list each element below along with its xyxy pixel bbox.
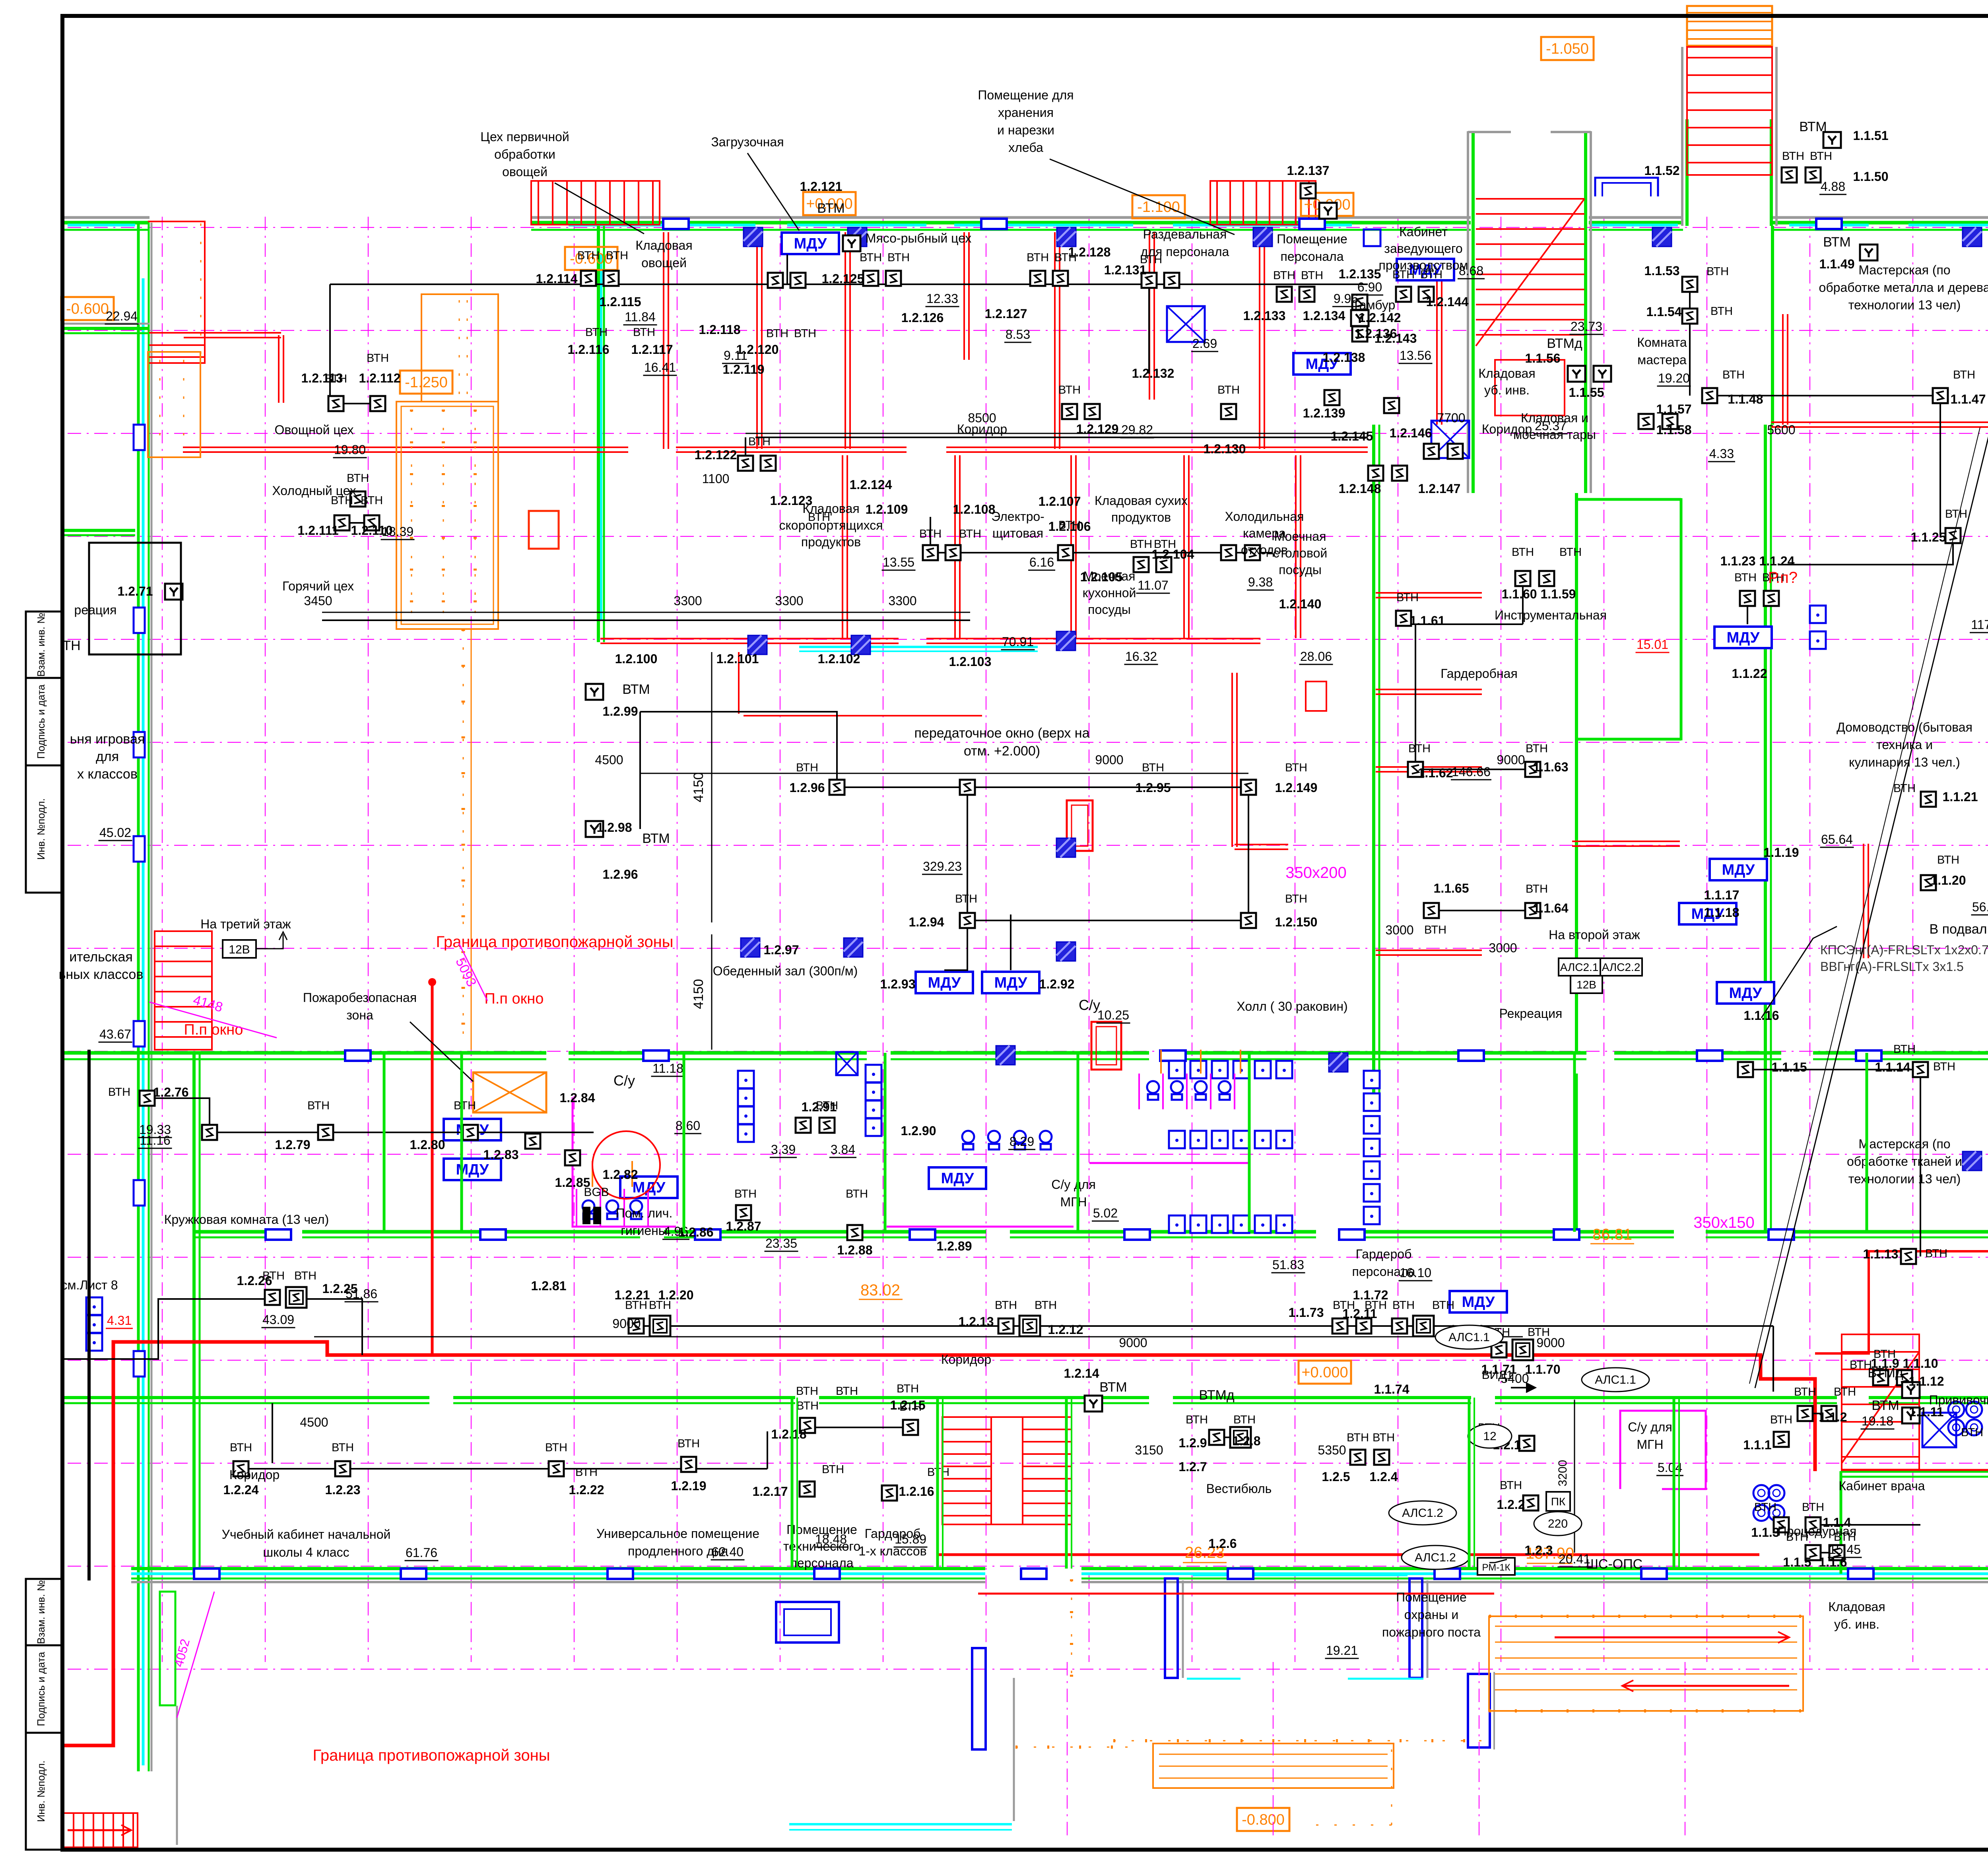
svg-text:19.18: 19.18 (1862, 1414, 1893, 1428)
red stair hatch top-left (531, 181, 660, 225)
svg-text:Домоводство (бытовая: Домоводство (бытовая (1837, 720, 1972, 734)
svg-text:13.56: 13.56 (1400, 348, 1431, 363)
svg-text:Тамбур: Тамбур (1352, 298, 1396, 312)
svg-text:86.81: 86.81 (1592, 1226, 1632, 1243)
svg-text:ВТН: ВТН (1347, 1431, 1369, 1444)
svg-text:ВТН: ВТН (1802, 1501, 1824, 1514)
svg-text:1.2.81: 1.2.81 (531, 1279, 567, 1293)
svg-text:1.2.88: 1.2.88 (837, 1243, 873, 1257)
svg-text:1.2.13: 1.2.13 (959, 1314, 994, 1329)
svg-text:Взам. инв. №: Взам. инв. № (35, 613, 47, 677)
svg-text:ВТМ: ВТМ (1823, 235, 1851, 250)
svg-text:Загрузочная: Загрузочная (711, 135, 784, 149)
svg-text:220: 220 (1548, 1517, 1568, 1530)
svg-text:4500: 4500 (300, 1415, 328, 1429)
svg-text:1.1.63: 1.1.63 (1533, 760, 1569, 774)
svg-text:АЛС1.1: АЛС1.1 (1448, 1331, 1490, 1344)
svg-text:АЛС1.2: АЛС1.2 (1402, 1507, 1443, 1520)
svg-text:ВТН: ВТН (633, 326, 655, 339)
porch hatch bottom right-center (1489, 1616, 1803, 1711)
svg-text:ВТН: ВТН (1706, 265, 1729, 278)
svg-text:На второй этаж: На второй этаж (1549, 928, 1640, 942)
svg-text:столовой: столовой (1273, 546, 1328, 560)
svg-text:29.82: 29.82 (1121, 423, 1153, 437)
svg-text:ВТН: ВТН (1333, 1299, 1355, 1312)
svg-text:ВТН: ВТН (816, 1099, 838, 1112)
svg-text:ВТН: ВТН (307, 1099, 330, 1112)
svg-text:350х200: 350х200 (1285, 864, 1346, 881)
svg-text:117.57: 117.57 (1971, 617, 1988, 632)
orange duct structure left (396, 402, 498, 629)
svg-text:1.2.129: 1.2.129 (1076, 422, 1119, 436)
svg-text:1.1.20: 1.1.20 (1931, 873, 1966, 887)
svg-text:Кабинет врача: Кабинет врача (1839, 1479, 1925, 1493)
svg-text:Комната: Комната (1637, 335, 1687, 349)
svg-text:технологии 13 чел): технологии 13 чел) (1848, 298, 1961, 312)
svg-text:ВТН: ВТН (1373, 1431, 1395, 1444)
svg-text:ВТН: ВТН (1186, 1413, 1208, 1426)
svg-text:1.2.87: 1.2.87 (726, 1219, 761, 1233)
svg-text:ВТН: ВТН (1140, 253, 1162, 266)
svg-text:Холодильная: Холодильная (1225, 509, 1304, 524)
fire loop red corridor line (62, 1342, 1815, 1745)
svg-text:школы 4 класс: школы 4 класс (263, 1545, 349, 1559)
exterior walls: top band (gray/green/cyan) (62, 216, 149, 219)
red stair hatch top-mid (1210, 181, 1316, 225)
orange taps (1160, 1050, 1162, 1074)
svg-text:мастера: мастера (1637, 353, 1687, 367)
svg-text:1.2.102: 1.2.102 (818, 652, 860, 666)
svg-text:ВВГнг(А)-FRLSLTх 3х1.5: ВВГнг(А)-FRLSLTх 3х1.5 (1820, 959, 1964, 974)
svg-text:1.2.98: 1.2.98 (597, 820, 632, 835)
svg-text:ьных классов: ьных классов (59, 967, 144, 982)
svg-text:Инв. №подл.: Инв. №подл. (35, 1761, 47, 1822)
svg-text:9000: 9000 (1536, 1336, 1565, 1350)
svg-text:1.2.18: 1.2.18 (771, 1427, 807, 1441)
left porch orange (1153, 1744, 1394, 1788)
svg-text:19.21: 19.21 (1326, 1643, 1358, 1658)
stair tower1 red flight (1476, 198, 1584, 200)
extended magenta verticals bottom (1067, 1662, 1068, 1841)
svg-text:Коридор: Коридор (941, 1352, 991, 1367)
svg-text:С/у: С/у (1079, 997, 1100, 1013)
svg-text:1.1.3: 1.1.3 (1751, 1525, 1779, 1540)
svg-text:хлеба: хлеба (1008, 140, 1043, 155)
svg-text:4150: 4150 (691, 772, 706, 802)
svg-text:ВТН: ВТН (1782, 150, 1804, 163)
svg-text:ительская: ительская (69, 949, 132, 965)
svg-text:ВТН: ВТН (577, 249, 600, 262)
interior green verticals mid sanitary blocks (383, 1053, 386, 1232)
svg-text:1.2.122: 1.2.122 (695, 448, 737, 462)
privivochnaya circles (1948, 1402, 1964, 1417)
svg-text:уб. инв.: уб. инв. (1484, 383, 1530, 397)
svg-text:1.2.118: 1.2.118 (699, 322, 741, 337)
NE block wall x4458 (1771, 226, 1774, 425)
MDU boxes (782, 233, 839, 254)
svg-text:Кладовая: Кладовая (635, 238, 692, 252)
svg-text:1.1.53: 1.1.53 (1644, 264, 1680, 278)
svg-text:1.2.19: 1.2.19 (671, 1479, 707, 1493)
svg-text:4150: 4150 (691, 979, 706, 1009)
svg-text:1.2.5: 1.2.5 (1322, 1470, 1350, 1484)
svg-text:1.1.21: 1.1.21 (1943, 790, 1978, 804)
svg-text:1.1.56: 1.1.56 (1525, 351, 1561, 365)
svg-text:4.88: 4.88 (1821, 179, 1845, 194)
svg-text:ВТН: ВТН (794, 327, 816, 340)
svg-text:1.2.111: 1.2.111 (297, 523, 338, 538)
svg-text:11.07: 11.07 (1138, 578, 1169, 592)
svg-text:и нарезки: и нарезки (997, 123, 1054, 137)
svg-text:1.1.57: 1.1.57 (1656, 402, 1692, 416)
svg-text:1.2.112: 1.2.112 (359, 371, 401, 385)
svg-text:ВТН: ВТН (1217, 384, 1240, 396)
svg-text:П.п окно: П.п окно (184, 1021, 243, 1038)
svg-text:1.1.74: 1.1.74 (1374, 1382, 1409, 1396)
svg-text:ВТМ: ВТМ (1872, 1398, 1899, 1413)
stair tower2 orange+red (1687, 6, 1772, 46)
left exterior wall (137, 223, 140, 1771)
axis grid (162, 217, 163, 1662)
svg-text:ВТН: ВТН (1392, 1299, 1415, 1312)
svg-text:1.1.47: 1.1.47 (1951, 392, 1986, 406)
hall sink rows (1169, 1061, 1185, 1078)
svg-text:С/у для: С/у для (1628, 1420, 1672, 1434)
svg-text:Граница противопожарной зоны: Граница противопожарной зоны (313, 1747, 550, 1764)
svg-text:9000: 9000 (1095, 753, 1123, 767)
svg-text:16.10: 16.10 (1400, 1266, 1431, 1280)
svg-text:1.2.107: 1.2.107 (1039, 494, 1081, 509)
garderob stack (1364, 1071, 1380, 1088)
svg-text:1.2.149: 1.2.149 (1275, 781, 1318, 795)
svg-text:1.2.119: 1.2.119 (723, 362, 765, 377)
svg-text:Кабинет: Кабинет (1399, 225, 1448, 239)
svg-text:1.2.108: 1.2.108 (953, 502, 996, 516)
svg-text:23.35: 23.35 (765, 1236, 797, 1250)
svg-text:8.68: 8.68 (1459, 264, 1483, 278)
svg-text:1.2.121: 1.2.121 (800, 179, 843, 194)
stair tower 1 walls (1472, 131, 1475, 493)
svg-text:ВТН: ВТН (331, 494, 353, 507)
svg-text:1.1.65: 1.1.65 (1434, 881, 1469, 895)
svg-text:Мясо-рыбный цех: Мясо-рыбный цех (866, 231, 971, 245)
svg-text:Кладовая: Кладовая (1478, 366, 1535, 381)
svg-text:ВТН: ВТН (1961, 1426, 1983, 1439)
fire zone corridor band y2648 (62, 1051, 546, 1055)
svg-text:пожарного поста: пожарного поста (1382, 1625, 1481, 1639)
svg-text:ВТН: ВТН (1396, 591, 1419, 604)
svg-text:продуктов: продуктов (801, 535, 861, 549)
level mark boxes (61, 297, 114, 320)
courtyard bands left block (62, 327, 149, 330)
svg-text:АЛС1.2: АЛС1.2 (1415, 1551, 1456, 1564)
svg-text:ВТН: ВТН (678, 1437, 700, 1450)
svg-text:1.2.135: 1.2.135 (1339, 267, 1381, 281)
svg-text:62.40: 62.40 (712, 1545, 744, 1559)
svg-text:1.2.144: 1.2.144 (1426, 295, 1469, 309)
svg-text:Коридор: Коридор (229, 1468, 280, 1482)
svg-text:Кладовая сухих: Кладовая сухих (1095, 493, 1188, 508)
svg-text:70.91: 70.91 (1002, 635, 1034, 649)
svg-text:заведующего: заведующего (1384, 241, 1462, 256)
svg-text:3.39: 3.39 (771, 1142, 796, 1157)
hall corridor band y3098 (195, 1230, 278, 1234)
central verticals (1372, 425, 1375, 1105)
svg-text:ВТН: ВТН (899, 1401, 922, 1413)
svg-text:ВТМ: ВТМ (1799, 119, 1827, 134)
svg-text:1.2.148: 1.2.148 (1339, 482, 1381, 496)
svg-text:ВТН: ВТН (796, 1400, 819, 1412)
bottom exterior wall (131, 1567, 985, 1570)
svg-text:ВТН: ВТН (836, 1385, 858, 1398)
bottom-right stair red (1842, 1334, 1919, 1470)
svg-text:1.2.127: 1.2.127 (985, 307, 1027, 321)
svg-text:ВТМд: ВТМд (1547, 336, 1582, 351)
svg-text:1.1.48: 1.1.48 (1728, 392, 1763, 406)
bottom-left stair red (64, 1813, 138, 1847)
svg-text:ВТН: ВТН (1526, 742, 1548, 755)
svg-text:15.89: 15.89 (895, 1532, 926, 1546)
svg-text:ВТН: ВТН (1794, 1386, 1816, 1398)
svg-text:Горячий цех: Горячий цех (282, 579, 354, 593)
svg-text:1.1.50: 1.1.50 (1853, 169, 1889, 184)
blue X squares (1167, 306, 1205, 342)
svg-text:ВТН: ВТН (1392, 268, 1415, 281)
svg-text:ВТН: ВТН (955, 893, 977, 905)
svg-text:ВТН: ВТН (1054, 251, 1077, 264)
svg-text:23.73: 23.73 (1571, 319, 1602, 334)
bottom left gray edge (176, 1706, 178, 1845)
svg-text:1.1.4: 1.1.4 (1823, 1515, 1851, 1530)
orange misc top-left (148, 352, 200, 457)
svg-text:1.2.146: 1.2.146 (1390, 426, 1432, 440)
svg-text:ВТН: ВТН (1945, 508, 1967, 520)
svg-text:6.90: 6.90 (1357, 280, 1382, 294)
svg-text:1.2.130: 1.2.130 (1204, 442, 1246, 456)
svg-text:гигиены: гигиены (621, 1223, 668, 1238)
dining duct cyan 350x200 (799, 646, 1038, 648)
svg-text:1.1.54: 1.1.54 (1646, 305, 1682, 319)
svg-text:1.2.83: 1.2.83 (483, 1147, 519, 1162)
porch chains left of vestibule (1071, 1579, 1072, 1677)
svg-text:1.1.61: 1.1.61 (1410, 614, 1445, 628)
svg-text:1.2.143: 1.2.143 (1375, 331, 1417, 346)
moechnaya red walls (1231, 673, 1233, 847)
svg-text:9000: 9000 (612, 1316, 641, 1331)
svg-text:3.84: 3.84 (831, 1142, 855, 1157)
entrance cyan lines (789, 1823, 1012, 1825)
svg-text:1.2.92: 1.2.92 (1039, 977, 1075, 991)
svg-text:8.29: 8.29 (1010, 1134, 1034, 1149)
svg-text:ВТН: ВТН (1850, 1359, 1872, 1371)
svg-text:Помещение для: Помещение для (978, 88, 1074, 102)
svg-text:ВТН: ВТН (1420, 268, 1442, 281)
sink stacks WC blocks (738, 1071, 754, 1088)
svg-text:Обеденный зал (300п/м): Обеденный зал (300п/м) (713, 964, 858, 978)
svg-text:обработке тканей и: обработке тканей и (1847, 1154, 1962, 1169)
svg-text:ВТН: ВТН (748, 435, 771, 448)
kitchen red partitions (663, 232, 664, 449)
svg-text:Подпись и дата: Подпись и дата (35, 1652, 47, 1726)
svg-text:4.31: 4.31 (107, 1313, 132, 1328)
svg-text:1.2.96: 1.2.96 (790, 781, 825, 795)
svg-text:-1.250: -1.250 (405, 374, 448, 391)
svg-text:1.2.4: 1.2.4 (1369, 1470, 1398, 1484)
svg-text:1.2.17: 1.2.17 (753, 1484, 788, 1499)
left corridor wall x488 (192, 1053, 196, 1574)
svg-text:1.2.115: 1.2.115 (600, 295, 641, 309)
svg-text:ВТН: ВТН (1893, 1043, 1916, 1056)
svg-text:6.16: 6.16 (1029, 555, 1054, 569)
svg-text:ВТН: ВТН (1754, 1501, 1776, 1514)
svg-text:ВТН: ВТН (766, 327, 788, 340)
svg-text:ВТН: ВТН (649, 1299, 671, 1312)
long diagonal leader (1755, 421, 1988, 1388)
svg-text:посуды: посуды (1088, 602, 1131, 617)
kitchen corridor red walls (184, 332, 281, 334)
svg-text:ВТН: ВТН (1285, 761, 1307, 774)
svg-text:ВТН: ВТН (846, 1188, 868, 1200)
svg-text:персонала: персонала (790, 1556, 853, 1570)
ovals ALS (1435, 1325, 1503, 1349)
ground symbol BGB (582, 1207, 590, 1224)
svg-text:ВТН: ВТН (454, 1099, 476, 1112)
svg-text:1.1.12: 1.1.12 (1909, 1374, 1944, 1388)
stair tower 2 walls (1685, 119, 1689, 226)
svg-text:ВТН: ВТН (1873, 1348, 1896, 1361)
svg-text:Пожаробезопасная: Пожаробезопасная (303, 990, 417, 1005)
svg-text:3000: 3000 (1489, 941, 1517, 955)
svg-text:1.1.2: 1.1.2 (1819, 1410, 1847, 1424)
svg-text:уб. инв.: уб. инв. (1834, 1617, 1879, 1631)
svg-text:16.32: 16.32 (1125, 649, 1157, 664)
svg-text:Подпись и дата: Подпись и дата (35, 684, 47, 759)
svg-text:ВТН: ВТН (347, 472, 369, 485)
svg-text:хранения: хранения (998, 105, 1054, 120)
left mid stair red (155, 931, 212, 1050)
svg-text:1.2.145: 1.2.145 (1331, 429, 1373, 443)
svg-text:1.1.70: 1.1.70 (1525, 1362, 1561, 1377)
svg-text:1.2.117: 1.2.117 (631, 342, 673, 357)
svg-text:1.1.73: 1.1.73 (1289, 1305, 1324, 1320)
svg-text:ВТН: ВТН (230, 1441, 252, 1454)
svg-text:1.1.16: 1.1.16 (1744, 1008, 1779, 1023)
svg-text:овощей: овощей (502, 165, 547, 179)
svg-text:продуктов: продуктов (1111, 510, 1171, 524)
svg-text:Помещение: Помещение (1396, 1590, 1467, 1604)
kitchen west wall x1505 (597, 226, 600, 642)
svg-text:1.1.14: 1.1.14 (1875, 1060, 1910, 1074)
svg-text:для: для (96, 749, 119, 764)
peredat окно leader (738, 652, 740, 714)
svg-text:1.2.116: 1.2.116 (568, 342, 610, 357)
svg-text:1.2.71: 1.2.71 (118, 584, 153, 598)
orange X-box fire zone (473, 1072, 546, 1113)
svg-text:3300: 3300 (674, 594, 702, 608)
svg-text:посуды: посуды (1279, 563, 1322, 577)
svg-text:х классов: х классов (77, 767, 138, 782)
svg-text:реация: реация (74, 603, 117, 617)
svg-text:ВТН: ВТН (1722, 369, 1745, 381)
red lines bottom vestibule corridor (938, 1553, 1759, 1556)
svg-text:ВТН: ВТН (545, 1441, 567, 1454)
svg-text:56.39: 56.39 (1972, 900, 1988, 914)
svg-text:43.67: 43.67 (99, 1027, 131, 1041)
svg-text:ВТН: ВТН (108, 1086, 130, 1099)
svg-text:12: 12 (1483, 1430, 1496, 1443)
svg-text:4500: 4500 (595, 753, 623, 767)
svg-text:Гардероб: Гардероб (1356, 1247, 1412, 1261)
svg-text:350х150: 350х150 (1693, 1214, 1754, 1231)
svg-text:С/у для: С/у для (1051, 1177, 1096, 1192)
svg-text:щитовая: щитовая (992, 526, 1043, 540)
svg-text:16.41: 16.41 (644, 360, 676, 375)
bottom-center stair red (942, 1417, 1072, 1524)
right kitchen red walls (1436, 278, 1438, 425)
svg-text:1.2.96: 1.2.96 (603, 867, 638, 881)
svg-text:На третий этаж: На третий этаж (200, 917, 291, 931)
svg-text:1.2.7: 1.2.7 (1178, 1460, 1207, 1474)
svg-text:+0.000: +0.000 (1301, 1364, 1348, 1381)
svg-text:ВТН: ВТН (1233, 1413, 1256, 1426)
svg-text:ВТН: ВТН (1130, 538, 1152, 551)
interior green verticals bottom classrooms (791, 1398, 794, 1569)
svg-text:1.1.25: 1.1.25 (1911, 530, 1946, 544)
svg-text:скоропортящихся: скоропортящихся (779, 518, 883, 532)
svg-text:5600: 5600 (1767, 423, 1795, 437)
svg-text:1.2.99: 1.2.99 (603, 704, 638, 718)
S/u MGN magenta box (1620, 1411, 1706, 1489)
svg-text:охраны и: охраны и (1404, 1608, 1458, 1622)
svg-text:Инв. №подл.: Инв. №подл. (35, 798, 47, 860)
svg-text:Вестибюль: Вестибюль (1206, 1481, 1272, 1496)
SE block Privivochnaya (1841, 1470, 1988, 1473)
svg-text:1.2.101: 1.2.101 (716, 652, 759, 666)
svg-text:1.2.138: 1.2.138 (1323, 350, 1365, 365)
svg-text:ВТН: ВТН (1365, 1299, 1387, 1312)
svg-text:8.53: 8.53 (1006, 327, 1030, 342)
svg-text:51.83: 51.83 (1272, 1258, 1304, 1272)
svg-text:1.1.1: 1.1.1 (1743, 1438, 1771, 1452)
svg-text:зона: зона (346, 1008, 373, 1022)
svg-text:1.2.6: 1.2.6 (1208, 1536, 1237, 1551)
svg-text:АЛС1.1: АЛС1.1 (1595, 1373, 1636, 1386)
svg-text:Взам. инв. №: Взам. инв. № (35, 1580, 47, 1644)
svg-text:9.96: 9.96 (1334, 291, 1358, 306)
svg-text:19.33: 19.33 (139, 1122, 171, 1137)
svg-text:12.33: 12.33 (926, 291, 958, 306)
detectors (265, 1290, 280, 1305)
svg-text:ВТН: ВТН (897, 1382, 919, 1395)
svg-text:3450: 3450 (304, 594, 332, 608)
svg-text:11.18: 11.18 (652, 1061, 683, 1076)
south corridor band y3515 (62, 1396, 429, 1399)
svg-text:9.11: 9.11 (724, 348, 747, 363)
svg-text:1.1.17: 1.1.17 (1704, 888, 1739, 902)
svg-text:9000: 9000 (1497, 753, 1525, 767)
svg-text:1.2.137: 1.2.137 (1287, 163, 1330, 178)
svg-text:3150: 3150 (1135, 1443, 1163, 1457)
svg-text:ВТМ: ВТМ (1099, 1380, 1127, 1395)
svg-text:ВТН: ВТН (575, 1466, 598, 1479)
svg-text:1.2.82: 1.2.82 (603, 1167, 638, 1182)
svg-text:ВТН: ВТН (1933, 1060, 1955, 1073)
svg-text:ВТН: ВТН (1432, 1299, 1454, 1312)
svg-text:25.37: 25.37 (1535, 419, 1567, 433)
svg-text:1.2.79: 1.2.79 (275, 1138, 311, 1152)
svg-text:ВТМд: ВТМд (1199, 1388, 1234, 1403)
svg-text:ВТН: ВТН (1027, 251, 1049, 264)
